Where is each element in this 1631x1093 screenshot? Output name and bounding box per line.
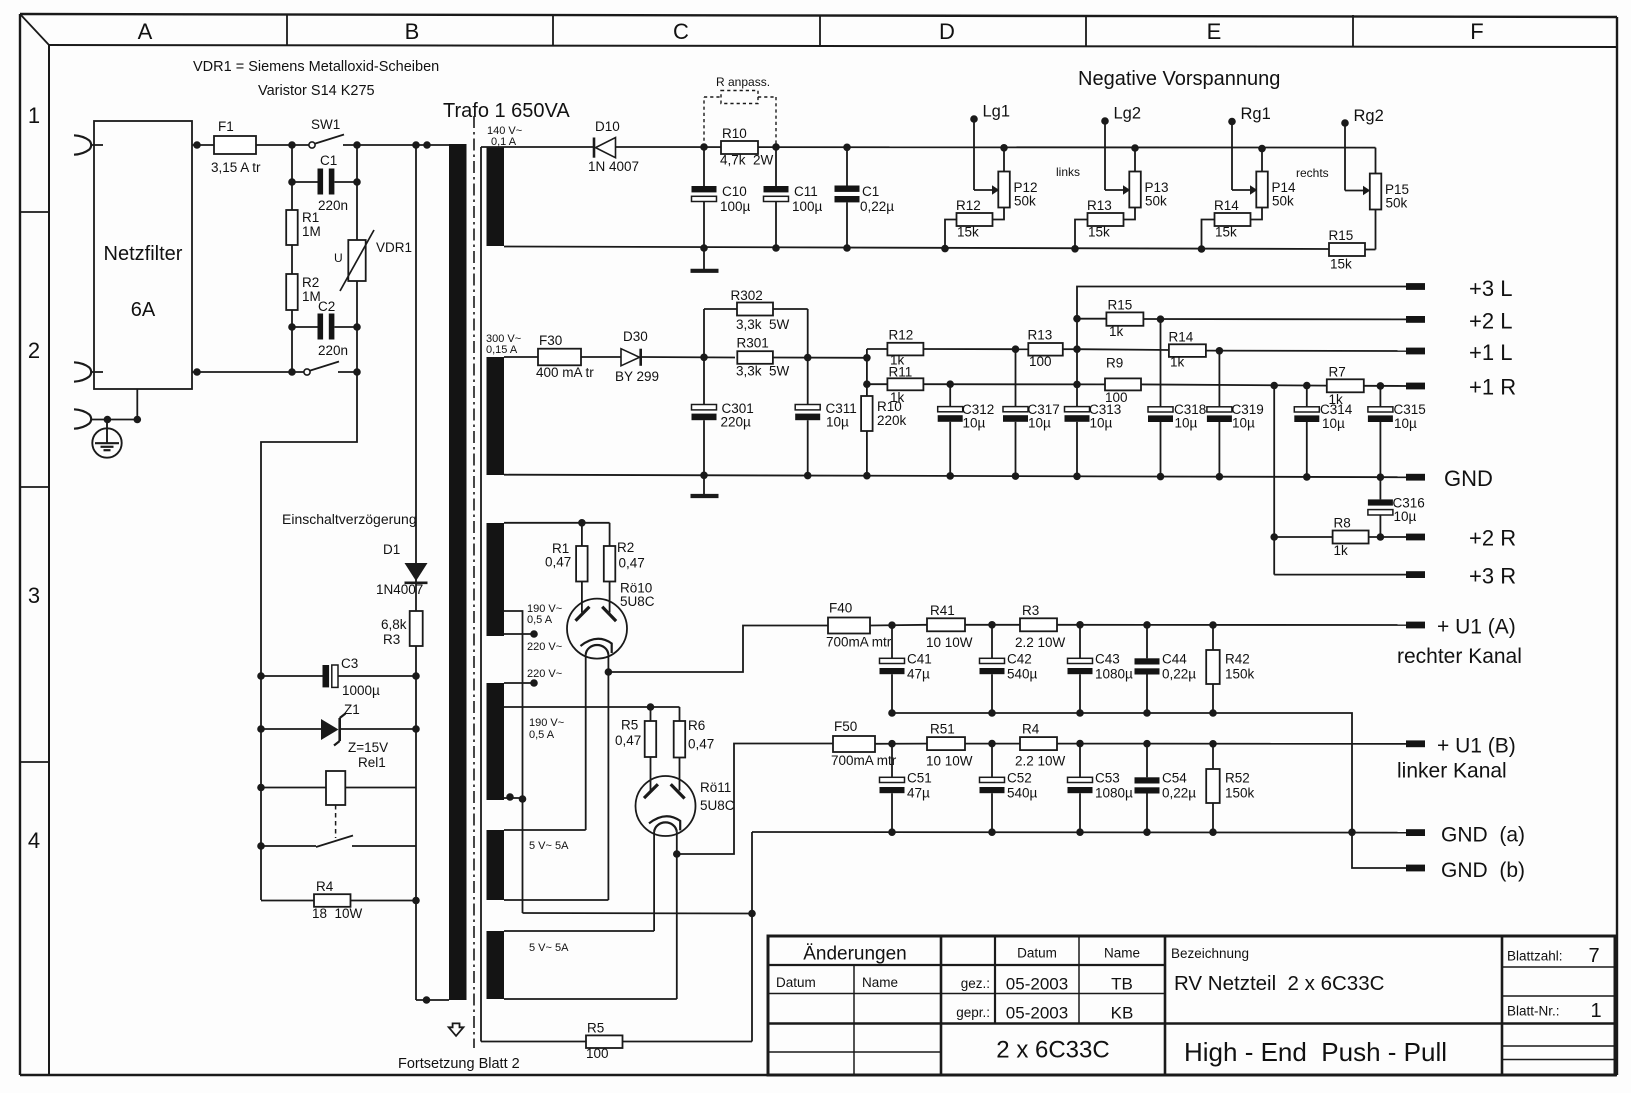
svg-text:15k: 15k [957,225,979,240]
junction [1209,621,1217,629]
wire R301 to node [773,357,867,359]
wire GND rail [504,475,1406,478]
svg-text:1: 1 [28,103,40,128]
svg-text:1: 1 [1590,1000,1601,1022]
resistor R7 1k [1327,365,1406,408]
svg-text:C51: C51 [907,771,932,786]
junction [863,380,871,388]
junction [1270,382,1278,390]
svg-text:C43: C43 [1095,652,1120,667]
svg-text:R5: R5 [621,718,638,733]
junction [888,740,896,748]
svg-text:C54: C54 [1162,771,1187,786]
svg-text:0,5 A: 0,5 A [527,614,553,626]
junction [888,828,896,836]
svg-text:R14: R14 [1214,198,1239,213]
capacitor C53 [1068,744,1134,833]
svg-text:C53: C53 [1095,771,1120,786]
junction [257,842,265,850]
svg-text:15k: 15k [1330,257,1352,272]
junction [1216,473,1224,481]
resistor R12 1k [867,328,1028,368]
svg-text:R41: R41 [930,603,955,618]
winding 5V secondary a [487,830,570,900]
wire riser to GND a rail [751,832,753,1042]
wire node vertical [866,349,868,396]
svg-text:KB: KB [1111,1004,1134,1023]
svg-text:Bezeichnung: Bezeichnung [1171,946,1249,961]
svg-text:C44: C44 [1162,652,1187,667]
resistor R15 1k [1077,298,1406,340]
svg-text:5U8C: 5U8C [700,798,735,813]
wire [291,182,293,210]
svg-text:1k: 1k [1334,543,1349,558]
wire +1R line [1141,384,1327,385]
resistor R4 2.2 [1015,722,1066,769]
resistor R301 [736,336,790,379]
capacitor C318 [1148,319,1206,476]
capacitor C43 [1068,625,1134,713]
Netzfilter block [94,121,192,389]
junction [1131,144,1139,152]
svg-text:1k: 1k [1170,355,1185,370]
svg-text:Trafo 1 650VA: Trafo 1 650VA [443,100,570,122]
svg-text:C10: C10 [722,184,747,199]
svg-text:R2: R2 [302,275,319,290]
junction [946,472,954,480]
wire to primary bottom [416,999,449,1001]
svg-text:0,22µ: 0,22µ [1162,667,1196,682]
svg-text:+ U1 (A): + U1 (A) [1437,616,1516,639]
wire [291,327,293,372]
label 190V a [527,603,562,626]
svg-text:50k: 50k [1272,194,1294,209]
svg-text:15k: 15k [1215,225,1237,240]
svg-text:+3 L: +3 L [1469,276,1512,301]
resistor R42 150k [1206,625,1254,713]
resistor R14 15k [1202,198,1251,249]
svg-text:0,5 A: 0,5 A [529,729,555,741]
svg-text:4,7k 2W: 4,7k 2W [720,153,774,168]
svg-text:220k: 220k [877,413,907,428]
junction [804,354,812,362]
capacitor C1 0.22u [835,147,895,248]
svg-text:F: F [1470,19,1483,44]
svg-text:1000µ: 1000µ [342,683,380,698]
resistor R11 1k [867,365,1105,406]
junction [1076,828,1084,836]
junction [647,703,655,711]
junction [288,141,296,149]
wire +3L riser [1077,287,1406,407]
wire tube Rö10 left leg [585,655,587,831]
wire Rö11 output to F50 [677,744,833,855]
wire L to F1 [192,144,214,146]
svg-text:5 V~ 5A: 5 V~ 5A [529,942,569,954]
junction [843,244,851,252]
svg-text:R13: R13 [1028,328,1053,343]
junction [1012,345,1020,353]
capacitor C42 [980,625,1038,713]
capacitor C316 [1368,477,1425,537]
fuse F1 [211,119,261,175]
frame row numbers [28,103,40,853]
switch SW1b [304,362,339,376]
svg-text:1k: 1k [890,390,905,405]
heading Trafo 1 650VA [443,100,570,122]
capacitor C52 [980,744,1038,832]
svg-text:18 10W: 18 10W [312,906,363,921]
junction [700,244,708,252]
resistor R4 [261,879,416,921]
svg-text:10 10W: 10 10W [926,754,973,769]
junction [1270,533,1278,541]
junction [863,472,871,480]
svg-text:High - End Push - Pull: High - End Push - Pull [1184,1037,1447,1067]
relay coil Rel1 [261,755,416,838]
winding 190V secondary b [487,683,505,800]
capacitor C317 [1003,349,1060,476]
junction [804,472,812,480]
wire D30 to node [642,356,736,359]
junction [288,323,296,331]
svg-text:50k: 50k [1145,194,1167,209]
wire tube Rö11 right leg [676,832,678,999]
heading Negative Vorspannung [1078,68,1280,90]
wire tube Rö10 right leg [607,655,609,901]
wire 5V winding b top [504,930,654,932]
junction [412,672,420,680]
junction [1073,345,1081,353]
junction [988,828,996,836]
svg-text:0,47: 0,47 [615,733,641,748]
resistor R5 0.47 [615,707,656,791]
junction [1143,709,1151,717]
node Rg2 [1341,107,1384,127]
svg-text:1080µ: 1080µ [1095,786,1133,801]
svg-text:+1 R: +1 R [1469,375,1516,400]
junction [1216,347,1224,355]
svg-text:220n: 220n [318,343,348,358]
svg-text:10µ: 10µ [1175,416,1198,431]
svg-text:100: 100 [586,1046,609,1061]
wire U1B rail to terminal [1057,743,1406,745]
svg-text:540µ: 540µ [1007,667,1038,682]
capacitor C319 [1207,351,1264,477]
winding 190V secondary a [487,523,505,636]
mains input connector L [74,135,103,154]
svg-text:+2 L: +2 L [1469,309,1512,334]
junction [1157,473,1165,481]
svg-text:R4: R4 [316,879,334,894]
svg-text:10µ: 10µ [1394,416,1417,431]
svg-text:6A: 6A [131,299,156,321]
resistor R302 bypass [704,288,808,358]
capacitor C54 [1135,744,1197,833]
wire neutral to delay circuit [261,372,357,900]
svg-text:1M: 1M [302,224,321,239]
svg-text:47µ: 47µ [907,667,930,682]
svg-text:D: D [939,19,955,44]
junction [1143,828,1151,836]
capacitor C1 [292,153,357,213]
svg-text:10µ: 10µ [1322,416,1345,431]
svg-text:R3: R3 [1022,603,1039,618]
fuse F50 [831,719,897,768]
junction [946,380,954,388]
terminal +1 R [1406,375,1516,400]
relay contact switch [261,836,416,848]
switch SW1 [309,117,344,148]
potentiometer P12 [974,148,1038,220]
note VDR1 type [193,59,439,99]
capacitor C41 [880,625,932,713]
transformer secondary boundary wire [480,147,482,1042]
wire 300V to F30 [504,356,538,358]
svg-text:+ U1 (B): + U1 (B) [1437,735,1516,758]
svg-text:linker Kanal: linker Kanal [1397,760,1507,783]
junction [673,850,681,858]
svg-text:1N4007: 1N4007 [376,582,423,597]
wire live rail down [415,145,417,1000]
node Rg1 [1228,105,1271,125]
svg-text:2 x 6C33C: 2 x 6C33C [996,1037,1109,1064]
svg-text:C52: C52 [1007,771,1032,786]
svg-text:R302: R302 [731,288,763,303]
winding 300V secondary [486,333,521,475]
note Fortsetzung Blatt 2 [398,1056,520,1072]
resistor R52 150k [1206,744,1254,833]
svg-text:R52: R52 [1225,771,1250,786]
svg-text:0,15 A: 0,15 A [486,344,518,356]
svg-text:Rel1: Rel1 [358,755,386,770]
potentiometer P14 [1232,148,1296,220]
diode D10 [588,119,639,174]
wire GND b [1352,832,1406,868]
junction [1073,472,1081,480]
svg-text:Netzfilter: Netzfilter [104,243,183,265]
svg-text:gez.:: gez.: [961,976,990,991]
svg-text:10 10W: 10 10W [926,635,973,650]
wire 5V winding b bottom [504,998,677,1000]
svg-text:1N 4007: 1N 4007 [588,159,639,174]
svg-text:15k: 15k [1088,225,1110,240]
junction [288,368,296,376]
svg-text:2.2 10W: 2.2 10W [1015,754,1066,769]
resistor R10 4.7k [720,126,774,168]
arrow continuation mark [449,1023,464,1036]
junction [888,621,896,629]
potentiometer P15 [1345,148,1409,250]
diode D1 [376,542,428,597]
wire Rg1 to wiper [1231,122,1233,191]
junction [772,244,780,252]
node 220V tap b [504,668,562,687]
label rechts [1296,166,1329,180]
svg-text:0,22µ: 0,22µ [860,199,894,214]
svg-text:1k: 1k [1109,324,1124,339]
junction [1012,472,1020,480]
svg-text:05-2003: 05-2003 [1006,1004,1068,1023]
junction [700,354,708,362]
svg-text:R8: R8 [1334,516,1351,531]
junction [700,471,708,479]
wire [291,245,293,274]
resistor R12 15k [945,198,993,249]
junction [843,144,851,152]
wire heater return [523,912,753,915]
ground symbol bias [691,248,719,271]
terminal +3 R [1406,564,1516,589]
svg-text:GND (a): GND (a) [1441,824,1525,847]
svg-text:GND (b): GND (b) [1441,859,1525,882]
resistor R8 1k [1274,516,1406,559]
title block texts [776,944,1602,1068]
wire U1A rail to terminal [1057,624,1406,626]
winding 5V secondary b [487,931,570,999]
svg-text:gepr.:: gepr.: [956,1005,990,1020]
junction [1303,473,1311,481]
svg-text:Name: Name [1104,946,1140,961]
wire F30 to D30 [581,356,621,358]
wire 190V winding a top to R1 R2 [504,522,610,524]
svg-text:D1: D1 [383,542,400,557]
capacitor C51 [880,744,932,832]
junction [412,141,420,149]
resistor R1 0.47 [545,523,588,613]
svg-text:R301: R301 [737,336,769,351]
node 220V tap a [504,630,562,653]
resistor R51 [926,722,973,769]
svg-text:10µ: 10µ [1394,509,1417,524]
svg-text:R11: R11 [889,365,913,380]
svg-text:0,22µ: 0,22µ [1162,786,1196,801]
svg-text:U: U [334,251,343,265]
junction [988,621,996,629]
svg-text:10µ: 10µ [1232,416,1255,431]
svg-text:R6: R6 [688,718,705,733]
svg-text:Rg1: Rg1 [1241,105,1271,123]
capacitor C311 [795,358,857,476]
junction [1076,709,1084,717]
junction [519,795,527,803]
terminal GND a [1406,824,1525,847]
svg-text:RV Netzteil 2 x 6C33C: RV Netzteil 2 x 6C33C [1174,972,1385,995]
wire 140V rail [616,146,1376,149]
frame column letters [138,19,1484,44]
svg-text:47µ: 47µ [907,786,930,801]
wire bias ground rail [504,247,1329,250]
svg-text:Fortsetzung Blatt 2: Fortsetzung Blatt 2 [398,1056,520,1072]
svg-text:700mA mtr: 700mA mtr [826,635,892,650]
wire [356,327,358,372]
resistor R14 1k [1077,330,1406,370]
svg-text:2: 2 [28,338,40,363]
resistor R1 [286,210,321,245]
svg-text:Rg2: Rg2 [1354,107,1384,125]
junction [1143,740,1151,748]
wire 190V tap a [504,611,523,913]
junction [1377,533,1385,541]
terminal +3 L [1406,276,1512,301]
wire [965,743,1020,745]
resistor R5 100 [481,1021,752,1062]
svg-text:50k: 50k [1386,196,1408,211]
terminal GND [1406,466,1493,491]
resistor R2 0.47 [604,523,645,613]
svg-text:Negative Vorspannung: Negative Vorspannung [1078,68,1280,90]
resistor R2 [286,274,321,310]
wire row A ground bus [892,713,1352,832]
svg-text:F50: F50 [834,719,857,734]
wire GND a rail [752,831,1406,834]
svg-text:0,47: 0,47 [619,556,645,571]
junction [988,740,996,748]
capacitor C301 [692,357,754,475]
svg-text:5 V~ 5A: 5 V~ 5A [529,840,569,852]
mains input connector PE [74,409,91,428]
svg-text:R9: R9 [1106,356,1123,371]
wire Netzfilter case to PE [136,389,138,420]
svg-text:C3: C3 [341,656,358,671]
svg-text:0,47: 0,47 [688,737,714,752]
svg-text:B: B [405,19,420,44]
wire [291,310,293,327]
junction [134,416,142,424]
svg-text:3,3k 5W: 3,3k 5W [736,317,790,332]
wire +2R riser [1273,386,1275,575]
potentiometer P13 [1105,148,1169,220]
junction [700,143,708,151]
wire 5V winding a bottom [504,899,608,901]
svg-text:GND: GND [1444,466,1493,491]
svg-text:150k: 150k [1225,786,1255,801]
junction [1076,621,1084,629]
label links [1056,165,1080,179]
svg-text:2.2 10W: 2.2 10W [1015,635,1066,650]
junction [412,725,420,733]
svg-text:R14: R14 [1169,330,1194,345]
junction [1071,245,1079,253]
svg-text:TB: TB [1111,975,1133,994]
junction [353,141,361,149]
capacitor C2 [292,299,357,358]
junction [288,178,296,186]
heading Einschaltverzögerung [282,511,417,527]
svg-text:540µ: 540µ [1007,786,1038,801]
junction [1258,145,1266,153]
svg-text:VDR1: VDR1 [376,240,412,255]
svg-text:100µ: 100µ [792,199,823,214]
capacitor C3 [261,656,416,698]
junction [578,519,586,527]
svg-text:C315: C315 [1394,402,1426,417]
junction [1348,829,1356,837]
svg-text:R4: R4 [1022,722,1040,737]
svg-text:Lg1: Lg1 [983,103,1011,121]
resistor R3 2.2 [1015,603,1066,650]
wire Lg2 to wiper [1104,121,1106,190]
transformer primary winding [449,144,467,1000]
svg-text:R51: R51 [930,722,955,737]
terminal +2 L [1406,309,1512,334]
wire +3R [1274,574,1406,576]
fuse F30 [536,333,594,380]
svg-text:Z=15V: Z=15V [348,740,388,755]
svg-text:C42: C42 [1007,652,1032,667]
capacitor C312 [938,384,995,476]
terminal +2 R [1406,526,1516,551]
